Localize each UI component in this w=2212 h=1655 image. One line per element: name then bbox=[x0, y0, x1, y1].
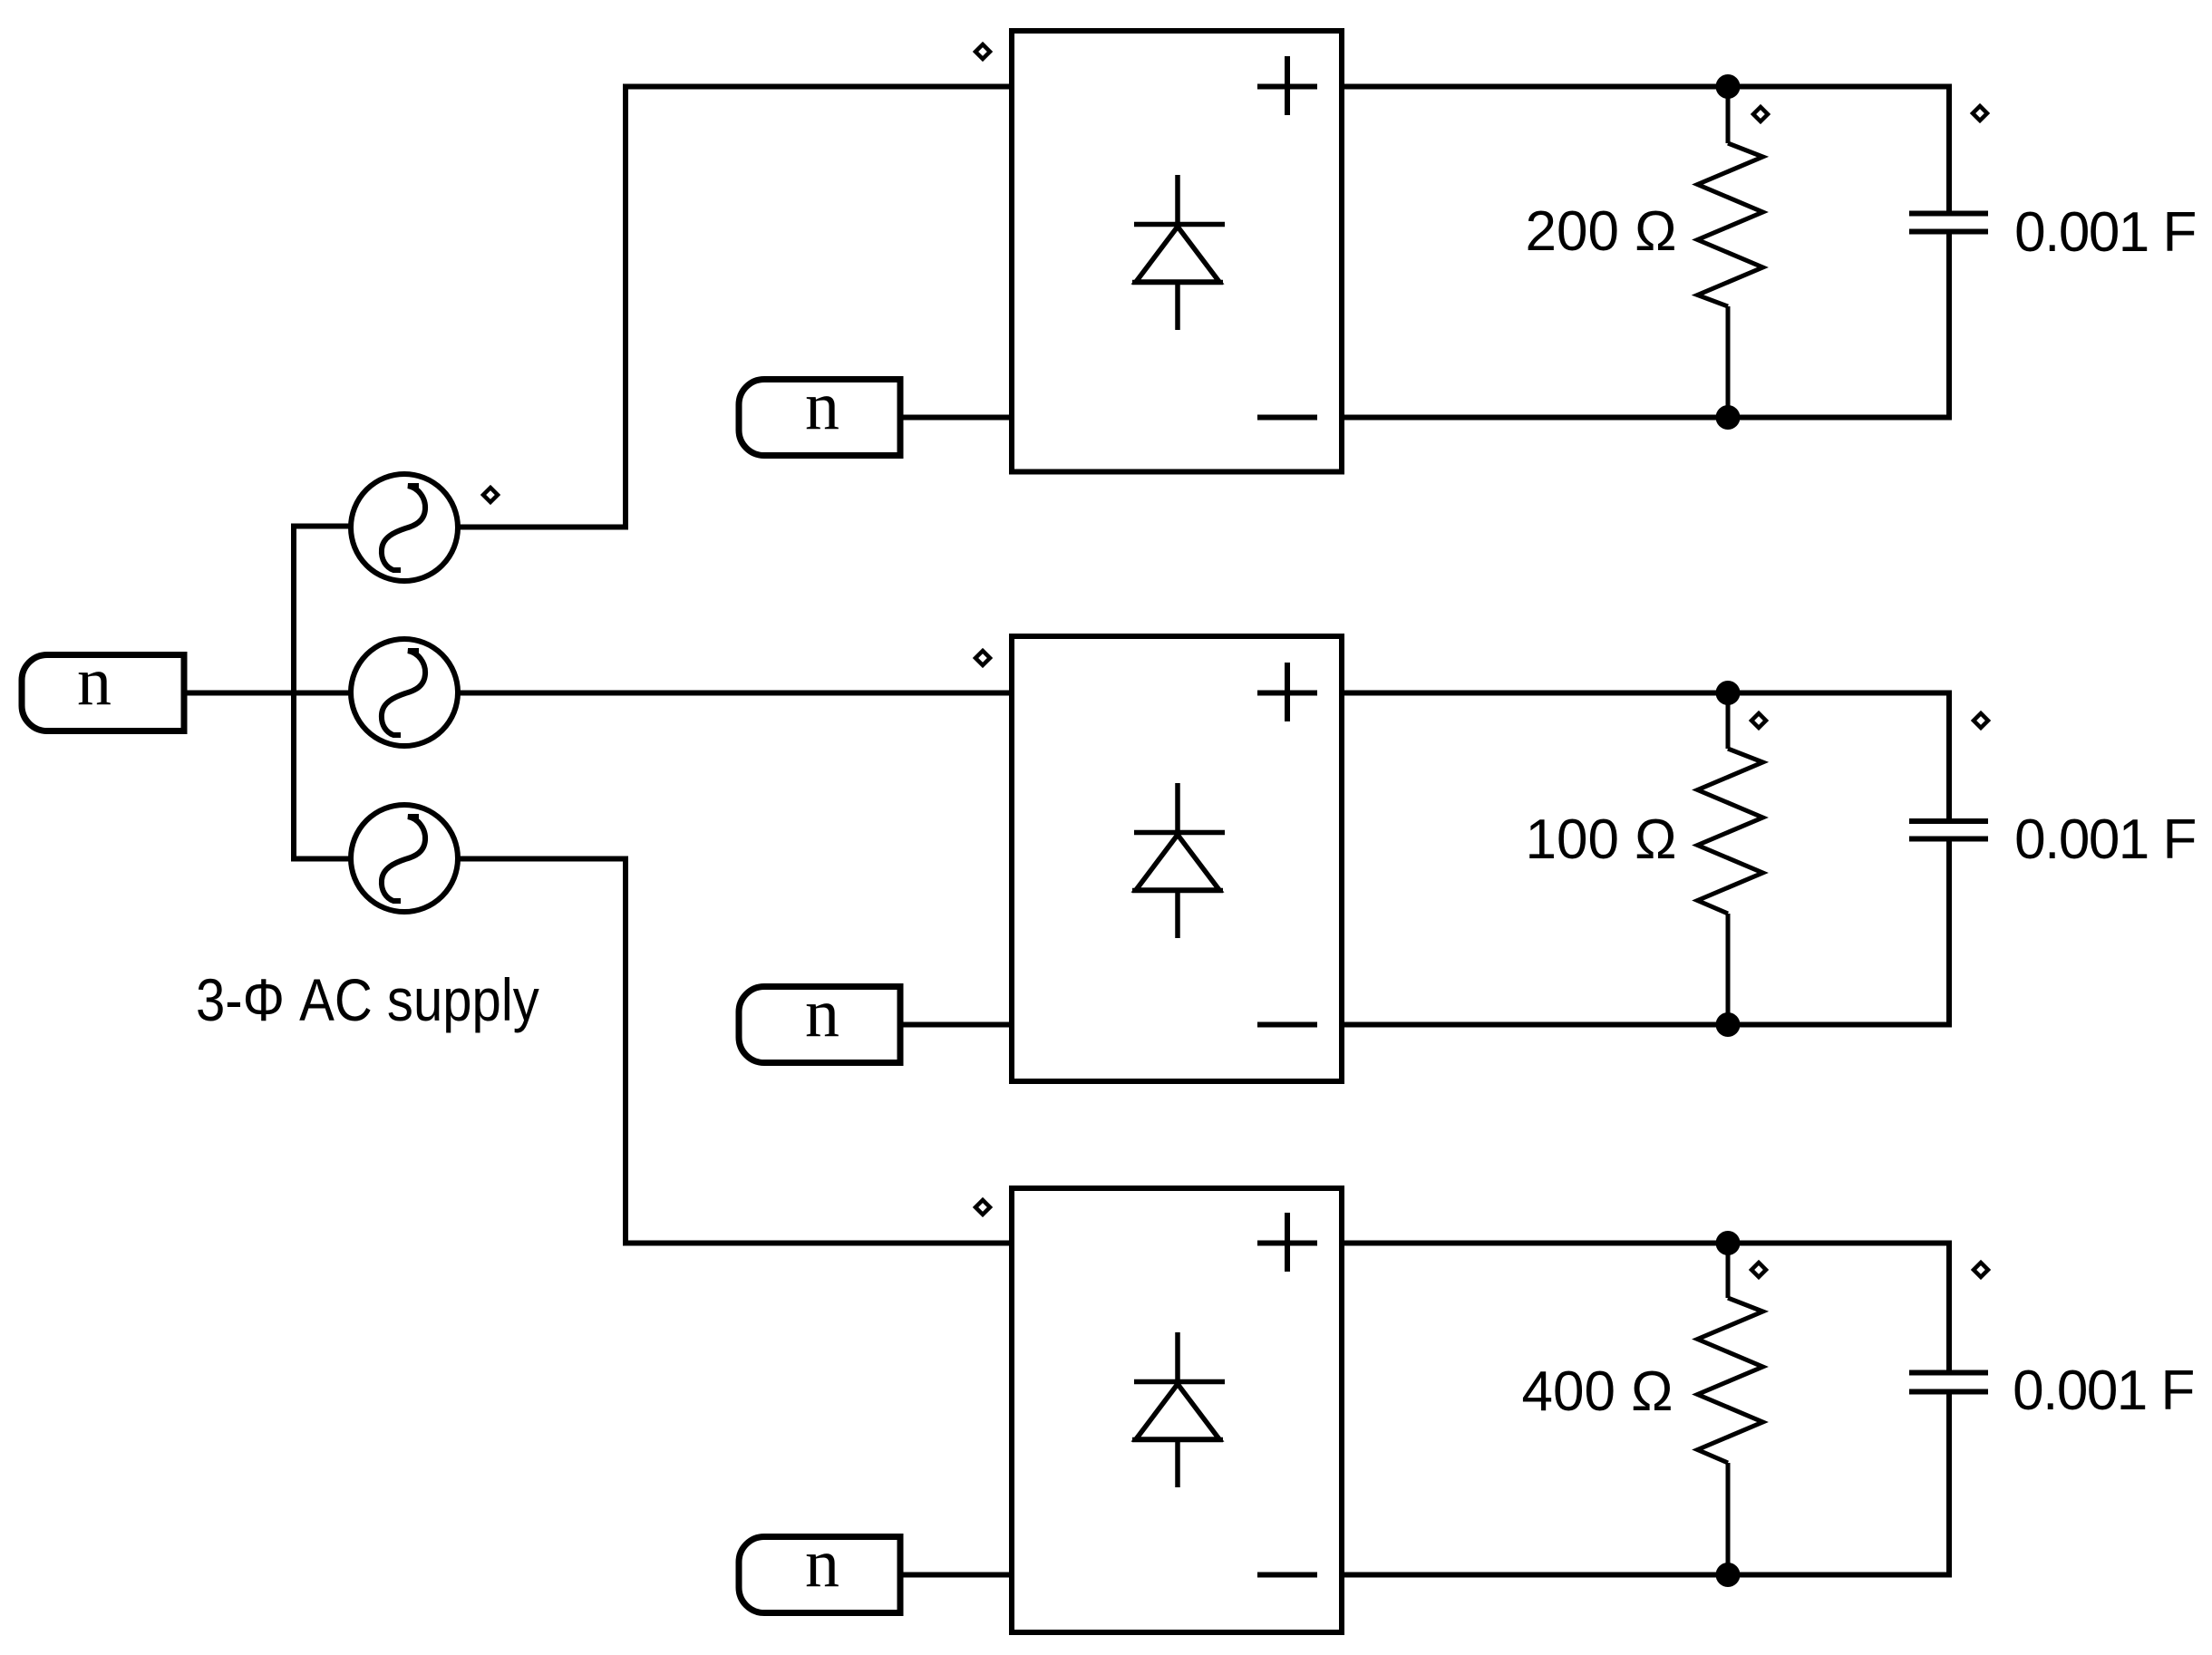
plus label U2 bbox=[1257, 663, 1317, 721]
junction dot row1 bottom bbox=[1716, 405, 1741, 430]
node marker resistor R2 top bbox=[1751, 713, 1766, 728]
junction dot row2 top bbox=[1716, 681, 1741, 705]
ac source V1 bbox=[351, 474, 458, 581]
wire n tag row2 to U2 bbox=[900, 1022, 1012, 1028]
svg-text:100 Ω: 100 Ω bbox=[1525, 808, 1676, 871]
wire corner down to rectifier 3 input bbox=[623, 857, 628, 1244]
node marker cap C1 top bbox=[1973, 106, 1987, 121]
wire cap C2 to bottom rail bbox=[1946, 841, 1952, 1028]
rectifier block U2 bbox=[1012, 636, 1342, 1081]
minus label U1 bbox=[1257, 415, 1317, 421]
capacitor C3 bbox=[1909, 1373, 1988, 1392]
wire bus to source V1 bbox=[291, 524, 351, 529]
plus label U3 bbox=[1257, 1213, 1317, 1272]
minus label U3 bbox=[1257, 1573, 1317, 1578]
svg-text:n: n bbox=[805, 975, 839, 1051]
wire n tag row3 to U3 bbox=[900, 1573, 1012, 1578]
wire cap branch row2 down bbox=[1946, 691, 1952, 819]
node marker rectifier U3 input bbox=[975, 1200, 990, 1215]
wire bus to source V3 bbox=[291, 857, 351, 862]
junction dot row2 bottom bbox=[1716, 1012, 1741, 1037]
node marker rectifier U1 input bbox=[975, 44, 990, 59]
wire U2 - output rail bbox=[1342, 1022, 1949, 1028]
wire to rectifier 1 AC input bbox=[623, 84, 1012, 90]
svg-text:0.001 F: 0.001 F bbox=[2013, 1360, 2194, 1422]
wire U3 - output rail bbox=[1342, 1573, 1949, 1578]
svg-text:0.001 F: 0.001 F bbox=[2014, 201, 2196, 264]
rectifier block U3 bbox=[1012, 1188, 1342, 1632]
svg-text:400 Ω: 400 Ω bbox=[1521, 1360, 1673, 1423]
node marker resistor R1 top bbox=[1753, 107, 1768, 121]
diode D2 inside U2 bbox=[1132, 783, 1225, 938]
wire cap C1 to bottom rail bbox=[1946, 234, 1952, 421]
wire n tag row1 to U1 bbox=[900, 415, 1012, 421]
svg-text:200 Ω: 200 Ω bbox=[1525, 200, 1676, 263]
svg-text:n: n bbox=[805, 368, 839, 444]
diode D3 inside U3 bbox=[1132, 1332, 1225, 1487]
node marker source V1 output bbox=[483, 488, 498, 502]
node marker cap C3 top bbox=[1974, 1263, 1988, 1277]
wire neutral tag to bus and source V2 bbox=[184, 691, 349, 696]
node n tag row2 bbox=[739, 975, 900, 1063]
node marker rectifier U2 input bbox=[975, 651, 990, 665]
wire cap branch row1 down bbox=[1946, 84, 1952, 212]
wire neutral bus vertical bbox=[291, 527, 296, 859]
svg-text:3-Φ AC supply: 3-Φ AC supply bbox=[196, 968, 539, 1034]
wire corner up to rectifier 1 input bbox=[623, 87, 628, 530]
node marker resistor R3 top bbox=[1751, 1263, 1766, 1277]
wire source V1 to corner bbox=[458, 525, 626, 530]
resistor R2 bbox=[1698, 693, 1763, 1024]
node n tag row3 bbox=[739, 1525, 900, 1613]
wire source V2 to rectifier 2 input bbox=[458, 691, 1012, 696]
junction dot row3 bottom bbox=[1716, 1563, 1741, 1587]
wire to rectifier 3 AC input bbox=[623, 1241, 1012, 1246]
svg-text:0.001 F: 0.001 F bbox=[2014, 808, 2196, 871]
wire cap branch row3 down bbox=[1946, 1241, 1952, 1371]
junction dot row3 top bbox=[1716, 1231, 1741, 1255]
diode D1 inside U1 bbox=[1132, 175, 1225, 330]
resistor R3 bbox=[1698, 1244, 1763, 1574]
ac source V2 bbox=[351, 639, 458, 746]
wire U1 - output rail bbox=[1342, 415, 1949, 421]
resistor R1 bbox=[1698, 86, 1763, 417]
svg-text:n: n bbox=[77, 644, 112, 720]
plus label U1 bbox=[1257, 56, 1317, 115]
minus label U2 bbox=[1257, 1022, 1317, 1028]
rectifier block U1 bbox=[1012, 31, 1342, 472]
wire source V3 to corner bbox=[458, 857, 626, 862]
node n tag row1 bbox=[739, 368, 900, 456]
svg-text:n: n bbox=[805, 1525, 839, 1602]
node marker cap C2 top bbox=[1974, 713, 1988, 728]
capacitor C2 bbox=[1909, 821, 1988, 839]
capacitor C1 bbox=[1909, 214, 1988, 232]
wire U2 + output rail bbox=[1342, 691, 1949, 696]
node n tag (left main, neutral) bbox=[22, 644, 184, 731]
ac source V3 bbox=[351, 805, 458, 912]
wire U3 + output rail bbox=[1342, 1241, 1949, 1246]
junction dot row1 top bbox=[1716, 74, 1741, 99]
wire cap C3 to bottom rail bbox=[1946, 1394, 1952, 1578]
wire U1 + output rail bbox=[1342, 84, 1949, 90]
